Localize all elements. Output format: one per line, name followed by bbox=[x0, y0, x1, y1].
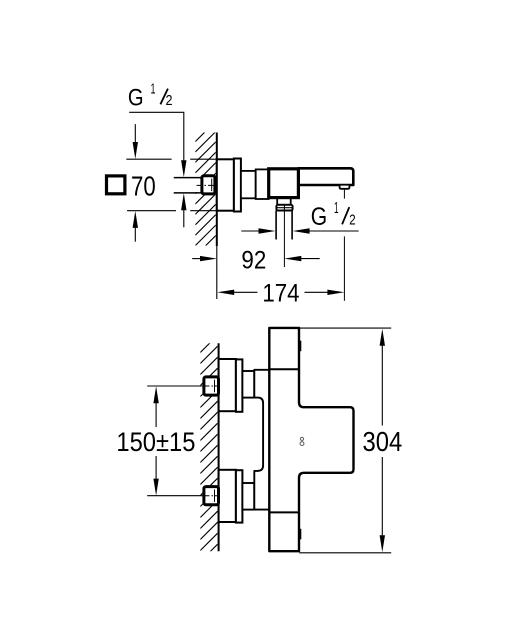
svg-text:2: 2 bbox=[349, 212, 355, 229]
svg-text:92: 92 bbox=[241, 247, 266, 275]
svg-text:174: 174 bbox=[262, 280, 299, 308]
svg-text:1: 1 bbox=[334, 200, 339, 217]
svg-text:70: 70 bbox=[131, 170, 156, 201]
svg-text:2: 2 bbox=[166, 92, 173, 109]
svg-text:G: G bbox=[128, 84, 144, 111]
svg-text:304: 304 bbox=[363, 426, 403, 457]
svg-text:1: 1 bbox=[151, 81, 156, 98]
svg-text:150±15: 150±15 bbox=[116, 426, 195, 457]
svg-text:G: G bbox=[311, 203, 327, 231]
